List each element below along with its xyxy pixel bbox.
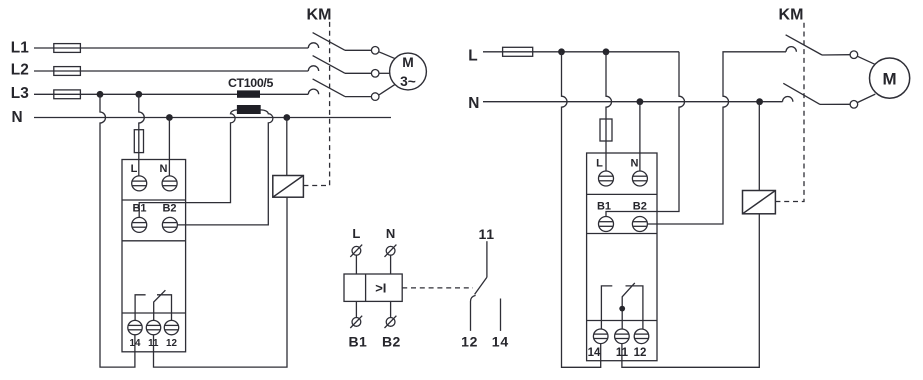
svg-text:L1: L1 bbox=[11, 39, 29, 56]
wire pole 1 to motor terminal (right) bbox=[822, 54, 850, 56]
svg-text:>I: >I bbox=[375, 280, 386, 295]
contactor KM pole 1 fixed contact (right) bbox=[786, 47, 796, 52]
wire pole 2 to motor terminal bbox=[345, 72, 371, 74]
relay device U1 outer box bbox=[122, 160, 186, 352]
wire N to terminal N (right) bbox=[639, 102, 641, 171]
wire L to fuse F6 (hops N) bbox=[606, 52, 612, 119]
motor terminal 2 (right) bbox=[850, 101, 858, 109]
wire terminal W to motor bbox=[379, 84, 395, 95]
svg-text:N: N bbox=[631, 157, 639, 169]
terminal N (U1) bbox=[162, 176, 177, 191]
fuse F4 (vertical) bbox=[134, 130, 143, 153]
motor terminal V bbox=[371, 70, 379, 78]
wire N to block (pilot) bbox=[390, 255, 392, 274]
svg-text:12: 12 bbox=[461, 333, 478, 349]
motor terminal W bbox=[371, 93, 379, 101]
device U2 divider output box bbox=[587, 320, 657, 322]
relay device U2 outer box bbox=[587, 153, 657, 361]
contactor KM pole 1 blade (right) bbox=[786, 35, 822, 55]
svg-text:N: N bbox=[160, 163, 168, 175]
svg-text:L2: L2 bbox=[11, 62, 29, 79]
motor terminal 1 (right) bbox=[850, 51, 858, 59]
wire N line (right) bbox=[483, 101, 783, 103]
terminal B1 (U1) bbox=[132, 217, 147, 232]
wire L to block (pilot) bbox=[355, 255, 357, 274]
terminal B1 (U2) bbox=[599, 217, 614, 232]
contact blade 11-12 (pilot) bbox=[475, 277, 487, 294]
node junction dot L/fuse-drop (right) bbox=[603, 48, 610, 55]
node junction dot N/coil bbox=[283, 114, 290, 121]
svg-text:L: L bbox=[596, 157, 603, 169]
wire pole 1 to motor terminal bbox=[345, 49, 371, 51]
terminal 14 (U2) bbox=[593, 329, 608, 344]
wire N line (left) bbox=[34, 117, 391, 119]
terminal 14 (U1) bbox=[128, 320, 142, 334]
motor terminal U bbox=[371, 47, 379, 55]
svg-text:B1: B1 bbox=[597, 201, 611, 213]
svg-text:M: M bbox=[883, 69, 897, 88]
terminal 11 (U1) bbox=[146, 320, 160, 334]
wire N to terminal N bbox=[168, 118, 170, 176]
mechanical link dashed (pilot) bbox=[402, 287, 473, 289]
terminal symbol B2 (pilot) bbox=[385, 316, 397, 328]
wire terminal 1 to motor (right) bbox=[858, 56, 875, 64]
wire terminal 2 to motor (right) bbox=[858, 94, 876, 102]
mechanical link dashed (right coil to contacts) bbox=[775, 22, 804, 202]
contactor KM pole 3 fixed contact bbox=[308, 89, 318, 94]
wire B2 to contactor KM (right, hops N) bbox=[647, 52, 786, 224]
terminal symbol L (pilot) bbox=[350, 245, 362, 257]
wire L1 line bbox=[34, 47, 308, 49]
node junction dot L3/fuse-drop bbox=[135, 91, 142, 98]
wire L3 to terminal 14 (left side, hops N) bbox=[100, 94, 135, 367]
node junction dot L3/wire-to-14 bbox=[97, 91, 104, 98]
svg-text:14: 14 bbox=[588, 347, 601, 359]
node junction dot N/device-N (right) bbox=[637, 98, 644, 105]
wire block to B1 (pilot) bbox=[355, 301, 357, 317]
svg-text:B2: B2 bbox=[633, 201, 647, 213]
svg-text:L3: L3 bbox=[11, 85, 29, 102]
svg-text:KM: KM bbox=[779, 7, 804, 24]
relay contact 12 branch (U2) bbox=[626, 286, 643, 329]
svg-text:L: L bbox=[468, 47, 477, 64]
svg-text:KM: KM bbox=[307, 7, 332, 24]
terminal B2 (U1) bbox=[162, 217, 177, 232]
wire N junction to coil KM (right) bbox=[758, 102, 760, 191]
svg-text:B2: B2 bbox=[162, 203, 176, 215]
svg-text:12: 12 bbox=[634, 347, 647, 359]
svg-text:14: 14 bbox=[130, 338, 141, 349]
svg-text:CT100/5: CT100/5 bbox=[228, 76, 274, 90]
svg-text:L: L bbox=[352, 226, 360, 241]
CT secondary bar bbox=[237, 105, 261, 114]
contactor KM pole 1 blade bbox=[313, 33, 345, 51]
fuse F2 on L2 bbox=[54, 67, 81, 76]
terminal 12 (U2) bbox=[634, 329, 649, 344]
wire CT secondary k to B1 (hops N) bbox=[139, 110, 237, 217]
node junction dot N/coil (right) bbox=[756, 98, 763, 105]
contactor KM pole 2 fixed contact bbox=[308, 66, 318, 71]
svg-text:14: 14 bbox=[492, 333, 509, 349]
mechanical link dashed (coil KM to contacts) bbox=[303, 22, 329, 186]
wire L2 line bbox=[34, 70, 308, 72]
svg-text:N: N bbox=[386, 226, 395, 241]
wire L line (right) bbox=[483, 51, 679, 53]
wire terminal V to motor bbox=[379, 72, 390, 74]
wire fuse F4 to terminal L bbox=[138, 130, 140, 176]
svg-text:B1: B1 bbox=[132, 203, 146, 215]
CT primary bar bbox=[237, 90, 260, 97]
terminal N (U2) bbox=[632, 171, 647, 186]
contactor KM pole 2 blade bbox=[313, 56, 345, 74]
terminal symbol N (pilot) bbox=[385, 245, 397, 257]
contact 12 lead (pilot) bbox=[471, 295, 476, 331]
contactor KM pole 2 blade (right) bbox=[783, 83, 820, 104]
fuse F5 on L (right) bbox=[503, 47, 533, 56]
wire L3 line bbox=[34, 93, 308, 95]
svg-text:M: M bbox=[402, 55, 414, 70]
svg-text:B1: B1 bbox=[348, 334, 367, 350]
terminal 12 (U1) bbox=[164, 320, 178, 334]
wire L line to B1 (right, hops N) bbox=[606, 52, 685, 217]
wire block to B2 (pilot) bbox=[390, 301, 392, 317]
node junction dot N/device-N bbox=[166, 114, 173, 121]
wire N junction to coil KM bbox=[286, 118, 288, 176]
svg-text:12: 12 bbox=[166, 338, 177, 349]
contactor KM pole 3 blade bbox=[313, 79, 345, 97]
svg-text:B2: B2 bbox=[382, 334, 401, 350]
device U1 divider L,N box bbox=[122, 199, 186, 201]
terminal symbol B1 (pilot) bbox=[350, 316, 362, 328]
wire fuse F6 to terminal L (right) bbox=[605, 119, 607, 171]
wire CT secondary l to B2 (hops N) bbox=[177, 110, 273, 225]
relay contact 12 branch (U1) bbox=[157, 295, 172, 321]
contact 11 lead (pilot) bbox=[486, 241, 488, 277]
node pivot dot contact 11 (U2) bbox=[619, 306, 625, 312]
contactor KM pole 1 fixed contact bbox=[308, 43, 318, 48]
node junction dot L/wire-to-14 (right) bbox=[558, 48, 565, 55]
svg-text:N: N bbox=[12, 109, 23, 126]
svg-text:11: 11 bbox=[478, 226, 494, 242]
svg-text:N: N bbox=[468, 95, 479, 112]
svg-text:3~: 3~ bbox=[400, 74, 416, 89]
coil KM (right) bbox=[743, 191, 776, 214]
contactor KM pole 2 fixed contact (right) bbox=[783, 96, 793, 101]
device U1 divider output box bbox=[122, 312, 186, 314]
relay contact 11 common blade (U1) bbox=[154, 290, 166, 320]
fuse F6 (vertical, right) bbox=[600, 119, 612, 141]
wire terminal U to motor bbox=[379, 52, 395, 59]
fuse F1 on L1 bbox=[54, 44, 81, 53]
wire pole 2 to motor terminal (right) bbox=[820, 103, 850, 105]
coil KM (left) bbox=[273, 176, 304, 198]
wire pole 3 to motor terminal bbox=[345, 96, 371, 98]
relay contact 14 branch (U2) bbox=[601, 286, 612, 329]
device U2 divider L,N box bbox=[587, 193, 657, 195]
relay contact 11 common blade (U2) bbox=[622, 283, 635, 329]
terminal L (U2) bbox=[599, 171, 614, 186]
wire coil KM to terminal 11 (right) bbox=[622, 214, 759, 367]
wire coil KM to terminal 11 bbox=[154, 197, 288, 367]
terminal 11 (U2) bbox=[615, 329, 630, 344]
contact 14 lead (pilot) bbox=[500, 299, 502, 331]
motor M circle (right) bbox=[870, 58, 910, 98]
terminal B2 (U2) bbox=[632, 217, 647, 232]
relay block >I (pilot) bbox=[344, 274, 402, 301]
wire L to terminal 14 (right, hops N) bbox=[562, 52, 601, 368]
fuse F3 on L3 bbox=[54, 90, 81, 99]
device U1 divider B1,B2 box bbox=[122, 240, 186, 242]
wire L3 to fuse F4 (hops N) bbox=[139, 94, 145, 129]
motor M 3~ circle bbox=[390, 53, 427, 90]
device U2 divider B1,B2 box bbox=[587, 233, 657, 235]
terminal L (U1) bbox=[132, 176, 147, 191]
svg-text:L: L bbox=[131, 163, 138, 175]
relay contact 14 branch (U1) bbox=[135, 295, 146, 321]
